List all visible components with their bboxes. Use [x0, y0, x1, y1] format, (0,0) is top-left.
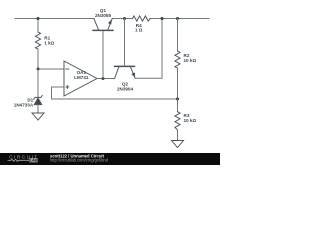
zener diode D1	[34, 95, 43, 104]
wire Q2 base	[124, 19, 126, 67]
svg-text:http://circuitlab.com/cmg/gv5b: http://circuitlab.com/cmg/gv5bnd	[50, 158, 109, 163]
node junction opamp output Q1 base	[102, 77, 105, 80]
footer logo squiggle	[8, 159, 30, 161]
wire D1 to ground	[37, 105, 39, 113]
svg-text:1N4733A: 1N4733A	[14, 102, 34, 107]
transistor Q2	[115, 66, 136, 78]
svg-text:10 kΩ: 10 kΩ	[184, 58, 197, 63]
node junction R1 D1 opamp	[37, 68, 40, 71]
resistor R1	[35, 32, 40, 49]
resistor R3	[175, 112, 180, 130]
node junction rail R1	[37, 17, 40, 20]
svg-text:1 kΩ: 1 kΩ	[44, 40, 54, 45]
node junction rail Q2 base	[123, 17, 126, 20]
svg-text:10 kΩ: 10 kΩ	[184, 118, 197, 123]
wire R1 bottom lead	[37, 49, 39, 69]
svg-text:LAB: LAB	[30, 159, 38, 163]
node junction feedback divider	[176, 98, 179, 101]
wire D1 top lead	[37, 69, 39, 97]
op-amp OA1	[64, 61, 97, 96]
wire R2 bottom lead	[177, 68, 179, 99]
ground below D1	[32, 113, 44, 120]
wire Q1 base	[102, 30, 104, 78]
node junction rail Q2 emitter	[161, 17, 164, 20]
footer bar	[0, 153, 220, 165]
wire input rail left	[15, 18, 94, 20]
wire R3 top lead	[177, 99, 179, 112]
ground below R3	[172, 141, 184, 148]
node junction rail R2	[176, 17, 179, 20]
resistor R2	[175, 51, 180, 68]
wire Q2 emitter to output node	[135, 19, 162, 79]
wire op-amp output	[97, 78, 115, 80]
svg-text:1 Ω: 1 Ω	[135, 28, 143, 33]
svg-text:2N3904: 2N3904	[117, 86, 134, 91]
wire R2 top lead	[177, 19, 179, 52]
wire rail Q1 emitter to R4	[112, 18, 133, 20]
wire R1 top lead	[37, 19, 39, 33]
transistor Q1	[93, 19, 113, 31]
footer logo LAB box	[30, 158, 38, 162]
wire op-amp feedback left	[52, 87, 178, 99]
resistor R4	[133, 16, 151, 21]
wire rail R4 to output	[150, 18, 209, 20]
wire node to op-amp inverting input	[38, 68, 64, 70]
svg-text:LM741: LM741	[74, 75, 89, 80]
wire R3 to ground	[177, 130, 179, 141]
svg-text:2N3055: 2N3055	[95, 13, 112, 18]
